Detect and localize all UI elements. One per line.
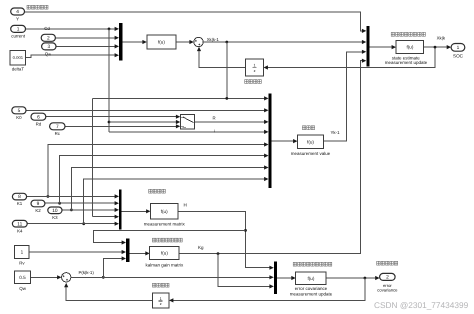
svg-text:f(u): f(u) (307, 139, 314, 144)
svg-text:K2: K2 (35, 208, 41, 213)
svg-text:f(u): f(u) (161, 251, 168, 256)
svg-text:Xk|k-1: Xk|k-1 (207, 37, 220, 42)
svg-text:K1: K1 (17, 201, 23, 206)
svg-text:1: 1 (254, 64, 256, 68)
svg-text:P(k|k-1): P(k|k-1) (79, 270, 95, 275)
svg-text:Xk|k: Xk|k (437, 35, 446, 40)
svg-text:Qw: Qw (19, 286, 26, 291)
svg-text:2: 2 (47, 35, 50, 41)
svg-text:measurement matrix: measurement matrix (144, 222, 186, 227)
svg-text:1: 1 (457, 45, 460, 51)
svg-text:current: current (11, 34, 25, 39)
svg-text:5: 5 (18, 108, 21, 114)
svg-text:Yk-1: Yk-1 (331, 130, 341, 135)
svg-text:4: 4 (16, 9, 19, 15)
svg-text:measurement update: measurement update (385, 60, 428, 65)
svg-text:Y: Y (16, 17, 19, 22)
svg-text:1: 1 (17, 27, 20, 33)
svg-text:1: 1 (160, 297, 162, 301)
svg-text:K3: K3 (52, 215, 58, 220)
svg-text:CSDN @2301_77434399: CSDN @2301_77434399 (374, 300, 469, 310)
svg-text:0.001: 0.001 (13, 55, 24, 60)
svg-text:kalman gain matrix: kalman gain matrix (146, 263, 185, 268)
svg-text:Rd: Rd (36, 122, 42, 127)
svg-text:R: R (213, 116, 216, 121)
svg-text:10: 10 (52, 208, 58, 214)
svg-text:8: 8 (18, 194, 21, 200)
svg-text:SOC: SOC (453, 54, 464, 59)
svg-text:measurement value: measurement value (291, 151, 331, 156)
svg-text:f(u): f(u) (307, 276, 314, 281)
svg-text:11: 11 (17, 221, 22, 227)
svg-text:Qa: Qa (45, 52, 51, 57)
svg-text:7: 7 (56, 124, 59, 130)
svg-text:K0: K0 (16, 115, 22, 120)
svg-text:Cd: Cd (44, 26, 50, 31)
svg-text:Rv: Rv (19, 260, 25, 265)
svg-text:Rc: Rc (55, 131, 61, 136)
svg-text:H: H (184, 203, 187, 208)
svg-text:Kg: Kg (198, 245, 204, 250)
svg-text:3: 3 (47, 44, 50, 50)
svg-text:K4: K4 (17, 229, 23, 234)
svg-text:6: 6 (37, 114, 40, 120)
svg-text:z: z (160, 302, 162, 306)
svg-text:deltaT: deltaT (12, 67, 25, 72)
svg-text:measurement update: measurement update (290, 291, 333, 296)
svg-text:i: i (214, 128, 215, 133)
svg-text:0.5: 0.5 (19, 275, 26, 280)
svg-text:covariance: covariance (377, 288, 398, 293)
svg-text:f(u): f(u) (158, 40, 165, 45)
svg-text:9: 9 (37, 201, 40, 207)
svg-text:1: 1 (21, 250, 24, 255)
svg-text:f(u): f(u) (161, 209, 168, 214)
svg-text:2: 2 (386, 275, 389, 281)
svg-text:f(u): f(u) (406, 45, 413, 50)
svg-text:z: z (254, 69, 256, 73)
